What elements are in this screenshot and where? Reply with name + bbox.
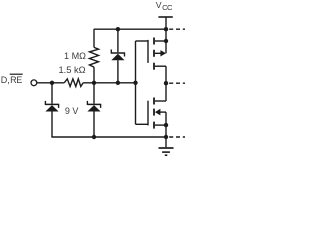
resistor 1.5 kΩ (horizontal) [64, 79, 83, 87]
zener diode middle [87, 83, 100, 137]
node ground rail junction [164, 135, 168, 139]
svg-text:1.5 kΩ: 1.5 kΩ [59, 65, 86, 75]
node input/1MΩ junction [92, 81, 96, 85]
wire VCC drop [165, 17, 167, 29]
node mid zener at ground rail [92, 135, 96, 139]
node input/zener1 junction [50, 81, 54, 85]
wire input to resistor [37, 82, 64, 84]
transistor Q2 drain stub [155, 100, 166, 102]
resistor 1 MΩ (vertical) [90, 29, 99, 83]
wire Q2 body/source down to ground rail [165, 112, 167, 137]
svg-text:1 MΩ: 1 MΩ [64, 51, 86, 61]
wire bottom ground rail [51, 136, 166, 138]
wire top VCC rail [94, 28, 166, 30]
overline on RE [10, 73, 23, 75]
node Q2 source/body [164, 123, 168, 127]
dashed wire VCC continuation [169, 28, 186, 30]
input terminal circle [31, 80, 37, 86]
wire Q1 drain to output node [165, 66, 167, 101]
dashed wire ground rail continuation [169, 136, 186, 138]
label VCC [156, 0, 173, 12]
node VCC rail junction [164, 27, 168, 31]
transistor Q2 gate electrode [147, 101, 149, 126]
transistor Q2 channel contacts [153, 98, 155, 105]
wire Q1 source/body to rail [165, 29, 167, 53]
dashed wire output continuation [169, 82, 186, 84]
ground symbol [159, 137, 174, 155]
node zener top at rail [116, 27, 120, 31]
node input/zener-top junction [116, 81, 120, 85]
node input/gate junction [133, 81, 137, 85]
transistor Q1 channel contacts [153, 38, 155, 45]
transistor Q1 gate electrode [147, 40, 149, 63]
transistor Q2 NMOS gate lead [136, 123, 149, 125]
svg-text:D,: D, [1, 75, 10, 85]
zener diode left 9 V [45, 83, 58, 137]
transistor Q1 drain stub [155, 65, 166, 67]
node output [164, 81, 168, 85]
transistor Q2 source stub [155, 124, 166, 126]
label D, RE (input) [1, 75, 22, 85]
wire resistor to gate node [83, 82, 135, 84]
power terminal VCC bar [158, 16, 172, 18]
zener diode top (input clamp to VCC) [111, 29, 124, 83]
transistor Q2 body arrow [155, 109, 161, 116]
svg-text:V: V [156, 0, 162, 10]
transistor Q1 body arrow [155, 52, 161, 54]
transistor Q1 source stub [155, 40, 166, 42]
wire gate node vertical [135, 41, 137, 124]
svg-text:RE: RE [10, 75, 22, 85]
transistor Q1 PMOS gate lead [136, 40, 149, 42]
svg-text:9 V: 9 V [65, 106, 79, 116]
svg-text:CC: CC [162, 3, 173, 12]
node Q1 source/body [164, 39, 168, 43]
